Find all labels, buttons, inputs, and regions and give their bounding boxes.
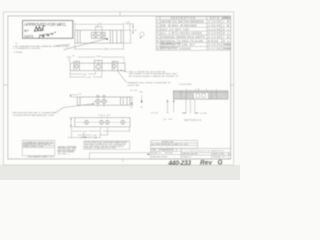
svg-text:TOL ±.005 ——: TOL ±.005 ——	[58, 153, 71, 155]
svg-text:FRACTIONS ± 1/64: FRACTIONS ± 1/64	[23, 145, 43, 148]
svg-text:2/13/98: 2/13/98	[208, 28, 221, 31]
svg-text:MATERIAL ADDED: MATERIAL ADDED	[161, 48, 191, 51]
svg-text:440-233: 440-233	[167, 160, 191, 167]
svg-text:JM: JM	[223, 21, 229, 24]
notes top-left	[13, 43, 70, 54]
svg-text:2. TOLERANCES ±.005 UNO: 2. TOLERANCES ±.005 UNO	[13, 47, 41, 50]
svg-text:JM: JM	[223, 25, 229, 28]
svg-text:Rev: Rev	[200, 159, 213, 166]
view3 left dim	[70, 94, 78, 97]
svg-text:FINISH: CLEAR ANODIZE PER: FINISH: CLEAR ANODIZE PER	[85, 147, 117, 150]
svg-text:CENTER COL SECTION REDESIGN: CENTER COL SECTION REDESIGN	[161, 21, 204, 24]
view2 bottom dims	[70, 71, 102, 78]
view1 right side dims	[124, 24, 144, 43]
VIEW 4	[75, 118, 130, 127]
svg-text:3. FINISH: 3. FINISH	[14, 52, 23, 54]
left middle note	[12, 112, 60, 118]
svg-text:OF BURRS AFTER MACHINING ALL O: OF BURRS AFTER MACHINING ALL OVER	[13, 114, 55, 117]
svg-text:SCALE 1:1: SCALE 1:1	[182, 156, 191, 159]
VIEW 3	[77, 95, 130, 107]
signature	[34, 26, 44, 32]
upper box	[151, 141, 198, 149]
leader from left note to view3	[55, 104, 93, 113]
svg-text:RWBM: RWBM	[223, 48, 231, 51]
svg-text:.50: .50	[134, 30, 137, 32]
svg-text:4 1/2 PROCESS A 4 40 MANIFOLD: 4 1/2 PROCESS A 4 40 MANIFOLD	[182, 150, 225, 153]
small .03 label	[130, 89, 133, 91]
svg-text:RWBM: RWBM	[223, 44, 231, 47]
svg-text:4/13/98: 4/13/98	[208, 36, 221, 39]
svg-text:5.00: 5.00	[104, 49, 109, 51]
svg-text:CHANGED CBORE HOLE DEPTH: CHANGED CBORE HOLE DEPTH	[161, 36, 205, 39]
dim above notes box	[84, 136, 101, 138]
sheet	[3, 12, 233, 165]
SECTION view (hatched)	[173, 91, 228, 100]
main block	[151, 149, 231, 160]
view4 above marks	[98, 114, 110, 117]
bottom-left tolerance block	[22, 140, 55, 155]
svg-text:DATE: DATE	[24, 35, 34, 39]
svg-text:BY: BY	[24, 29, 29, 33]
VIEW 2 (front view)	[70, 60, 125, 70]
svg-text:2/99: 2/99	[220, 154, 224, 156]
svg-text:ALL DIMS WITHIN BLOCK ARE TOL: ALL DIMS WITHIN BLOCK ARE TOL ±.005	[152, 143, 188, 146]
stamp APPROVED FOR MFG	[23, 20, 73, 38]
date scribble	[39, 32, 55, 38]
svg-text:DESCRIPTION: DESCRIPTION	[171, 17, 195, 20]
svg-text:2/17/99: 2/17/99	[208, 48, 221, 51]
svg-text:3/13/98: 3/13/98	[208, 32, 221, 35]
view2 top dim	[67, 57, 125, 63]
dims below view4	[68, 127, 130, 138]
svg-text:APPRVD: APPRVD	[222, 17, 230, 20]
svg-text:APPROVED FOR MFG.: APPROVED FOR MFG.	[24, 22, 67, 27]
svg-text:1.63: 1.63	[126, 22, 130, 24]
svg-text:2X Ø.44 THRU: 2X Ø.44 THRU	[179, 84, 192, 86]
handwritten rev note	[167, 159, 222, 167]
svg-text:Ø .375: Ø .375	[201, 113, 208, 115]
svg-text:DWN: DWN	[152, 150, 157, 152]
section plane marks	[130, 95, 142, 105]
view1 dim below	[75, 44, 124, 50]
svg-text:.50: .50	[197, 89, 200, 91]
svg-text:.75: .75	[96, 26, 99, 28]
svg-text:SCALE 1:1: SCALE 1:1	[152, 152, 161, 155]
note block 1 right of view2	[129, 71, 180, 78]
section below dims	[182, 99, 200, 113]
center bottom notes box	[84, 141, 130, 149]
svg-text:1/4 NPT TAP: 1/4 NPT TAP	[127, 84, 140, 87]
view4 left dim	[70, 118, 75, 127]
right paragraph	[58, 147, 78, 156]
VIEW 1 (top view)	[75, 30, 124, 43]
svg-text:DATE: DATE	[213, 153, 219, 156]
svg-text:DWN MLB 2/15/99: DWN MLB 2/15/99	[152, 157, 168, 159]
svg-text:SIX PLACES EQUALLY SPACED AS S: SIX PLACES EQUALLY SPACED AS SHOWN TYP	[129, 75, 180, 78]
zone tick marks	[3, 12, 233, 162]
svg-text:FILE 440: FILE 440	[165, 153, 173, 155]
svg-text:THIS DRAWING SHEET 1 OF 1: THIS DRAWING SHEET 1 OF 1	[27, 155, 54, 158]
svg-text:DATE: DATE	[210, 17, 219, 20]
svg-text:SECTION A-A: SECTION A-A	[184, 119, 202, 122]
note block 2	[127, 81, 172, 86]
leaders from notes	[56, 44, 71, 45]
view1 dims above	[75, 23, 124, 32]
svg-text:ALL .2 MTG HOLES ADDED: ALL .2 MTG HOLES ADDED	[161, 32, 202, 35]
title block	[89, 141, 230, 160]
svg-text:.25 ±.03: .25 ±.03	[150, 112, 158, 114]
svg-text:JM: JM	[223, 36, 229, 39]
right-center annotations	[166, 100, 173, 120]
svg-text:1/30/98: 1/30/98	[208, 25, 221, 28]
revision table top right	[156, 17, 231, 51]
svg-text:THIS SIDE MUST BE FLAT TO .002: THIS SIDE MUST BE FLAT TO .002 AND FREE …	[12, 112, 60, 115]
svg-text:2/15/99: 2/15/99	[208, 44, 221, 47]
leaders to note blocks	[120, 70, 121, 71]
svg-text:DIM .50 WAS .45 REVISED: DIM .50 WAS .45 REVISED	[161, 25, 197, 28]
svg-text:1/15/98: 1/15/98	[208, 21, 221, 24]
svg-text:DWG NO 440-233: DWG NO 440-233	[182, 154, 197, 156]
svg-text:8/8/98: 8/8/98	[208, 40, 219, 43]
svg-text:G: G	[217, 159, 222, 166]
section top ticks and note	[186, 89, 216, 91]
svg-text:ADD 1/4 NPT TAP: ADD 1/4 NPT TAP	[161, 28, 189, 31]
svg-text:(.05): (.05)	[139, 91, 143, 93]
